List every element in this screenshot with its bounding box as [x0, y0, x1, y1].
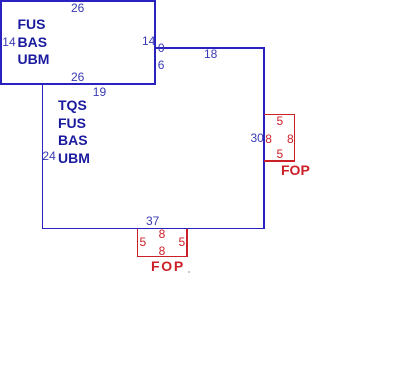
FOP box 1 dimension 8 left: [265, 133, 272, 145]
dimension 26 (room 1 bottom): [71, 71, 84, 83]
FOP box 1 dimension 8 right: [287, 133, 294, 145]
FOP box 1 label: [281, 163, 310, 177]
room 1 outline (top-left rectangle): [0, 0, 156, 85]
FOP box 2 dimension 5 right: [179, 236, 186, 248]
FOP box 1 dimension 5 top: [277, 115, 284, 127]
dimension 14 (room 1 right): [142, 35, 155, 47]
dimension 24 (room 2 left): [42, 150, 55, 162]
stray gray tick after FOP label: [188, 271, 191, 274]
wire: room 2 bottom wall: [42, 228, 266, 230]
dimension 37 (room 2 bottom): [146, 215, 159, 227]
wire: room 2 top wall: [155, 47, 265, 49]
dimension 30 (room 2 right): [251, 132, 264, 144]
dimension 0 (at top wall junction): [158, 42, 165, 54]
FOP box 2 dimension 8 top: [159, 228, 166, 240]
FOP box 1 dimension 5 bottom: [277, 148, 284, 160]
room 1 label FUS BAS UBM: [18, 16, 50, 69]
FOP box 1 right edge: [294, 114, 296, 162]
FOP box 2 bottom edge: [137, 256, 188, 258]
FOP box 1 top edge: [264, 114, 295, 116]
FOP box 2 label: [151, 259, 185, 273]
wire: room 2 left wall: [42, 84, 44, 229]
FOP box 2 right edge: [186, 229, 188, 258]
FOP box 2 dimension 5 left: [140, 236, 147, 248]
dimension 19 (room 2 top-left): [93, 86, 106, 98]
FOP box 1 bottom edge: [264, 160, 295, 162]
dimension 14 (room 1 left): [2, 36, 15, 48]
FOP box 2 left edge: [137, 229, 139, 258]
room 2 label TQS FUS BAS UBM: [58, 97, 90, 167]
dimension 26 (room 1 top): [71, 2, 84, 14]
dimension 18 (room 2 top): [204, 48, 217, 60]
FOP box 2 dimension 8 bottom: [159, 245, 166, 257]
wire: room 2 right wall: [263, 47, 265, 229]
dimension 6 (below junction): [158, 59, 165, 71]
